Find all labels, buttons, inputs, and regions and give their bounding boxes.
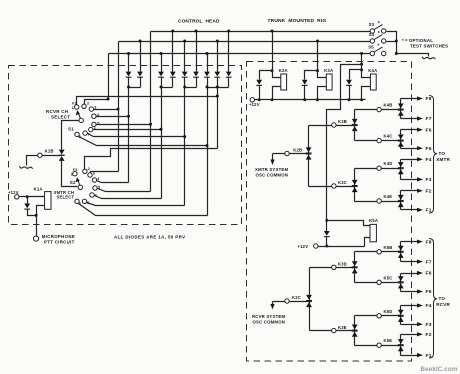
wire S1 pos3 to column v2	[94, 109, 119, 111]
svg-text:F4: F4	[426, 303, 432, 309]
switch S1 contact 5	[92, 122, 96, 126]
svg-text:XMTR: XMTR	[436, 157, 450, 162]
svg-text:F5: F5	[426, 289, 432, 295]
terminal F7	[401, 118, 418, 120]
contact K5D	[377, 314, 381, 318]
wire channel column v4 x=150.5	[150, 32, 152, 192]
terminal F6	[401, 273, 418, 275]
switch S2 contact 4	[92, 178, 96, 182]
contact K3E	[310, 330, 355, 332]
switch S1 contact 1	[75, 105, 79, 109]
terminal MICROPHONE PTT CIRCUIT	[34, 236, 39, 241]
steering diode pair at K5C	[400, 274, 402, 292]
wire bus 3 (bottom)	[109, 53, 371, 55]
svg-text:F6: F6	[426, 271, 432, 277]
wire S2 pos6 to column v5	[95, 196, 162, 199]
svg-text:+12V: +12V	[8, 190, 19, 195]
wire K1A coil to PTT line	[37, 206, 45, 237]
svg-text:*: *	[378, 31, 380, 37]
wire channel column v1 x=108	[108, 54, 110, 100]
terminal +12V (control head)	[15, 195, 19, 199]
svg-text:K5B: K5B	[384, 245, 393, 250]
wire K3D/K3E branch	[309, 268, 311, 331]
terminal F7	[401, 261, 418, 263]
wire S2 pos2 staircase to column v8	[85, 149, 218, 170]
steering diode pair at K4D	[400, 160, 402, 180]
wire S1 pos8 to column v7	[79, 137, 208, 146]
relay coil K3A	[318, 71, 327, 78]
svg-text:TRUNK MOUNTED RIG: TRUNK MOUNTED RIG	[268, 18, 327, 24]
relay coil K1A	[45, 192, 51, 210]
svg-text:F5: F5	[426, 146, 432, 152]
svg-text:F4: F4	[426, 157, 432, 163]
wire S2 pos4 to column v3	[97, 181, 129, 183]
diode CR9 (channel matrix) with feed from bus	[228, 32, 230, 72]
svg-text:SELECT: SELECT	[51, 115, 70, 120]
wire channel column v5 x=161	[161, 88, 163, 199]
svg-text:2: 2	[88, 167, 90, 171]
wire K5B/K5C branch	[355, 251, 377, 253]
steering diode pair at K5B	[400, 242, 402, 262]
svg-text:K2C: K2C	[292, 295, 301, 300]
svg-text:1: 1	[71, 173, 73, 177]
switch S2 contact 8	[75, 199, 79, 203]
contact K3D	[310, 267, 355, 269]
steering diode pair (tree)	[354, 110, 356, 141]
switch S2 wiper	[78, 185, 82, 189]
wire channel column v6 x=184.7	[184, 88, 186, 206]
svg-text:TO: TO	[439, 296, 446, 301]
wire channel column v3 x=128.5	[128, 88, 130, 183]
switch S2 contact 1	[73, 172, 77, 176]
svg-text:OSC COMMON: OSC COMMON	[253, 320, 286, 325]
wire K1B junction down to S2 wiper	[62, 161, 78, 187]
terminal F3	[401, 179, 418, 181]
svg-text:S3: S3	[369, 22, 375, 27]
svg-text:PTT CIRCUIT: PTT CIRCUIT	[44, 240, 75, 245]
switch S5 (optional test switch)	[370, 51, 374, 55]
steering diode pair at K4C	[400, 130, 402, 149]
switch S2 contact 6	[90, 193, 94, 197]
steering diode pair at K4E	[400, 191, 402, 210]
svg-text:K5A: K5A	[369, 218, 378, 223]
wire K5E to steering diodes	[382, 345, 401, 347]
diode CR11 (lower, at K1B)	[59, 156, 65, 161]
svg-text:F3: F3	[426, 177, 432, 183]
wire K4D to steering diodes	[382, 168, 401, 170]
steering diode pair (K2B node)	[306, 147, 312, 152]
svg-text:+12V: +12V	[298, 244, 309, 249]
diode CR3 (channel matrix) with feed from bus	[161, 54, 163, 72]
svg-text:TEST SWITCHES: TEST SWITCHES	[410, 43, 448, 48]
contact K4D	[377, 166, 381, 170]
contact K2C	[273, 301, 310, 303]
wire S2 pos8 to column v7	[79, 204, 208, 216]
wire +12V to K5A	[319, 246, 365, 248]
wire K4C to steering diodes	[382, 140, 401, 142]
svg-text:K2B: K2B	[293, 148, 302, 153]
svg-text:K3C: K3C	[338, 180, 347, 185]
contact K3B	[309, 125, 355, 127]
switch S1 contact 8	[75, 132, 79, 136]
steering diode pair at K5D	[400, 306, 402, 325]
svg-text:S1: S1	[68, 127, 74, 132]
svg-text:RCVR: RCVR	[436, 302, 450, 307]
svg-text:K3D: K3D	[338, 262, 347, 267]
switch S1 contact 3	[89, 107, 93, 111]
diode CR7 (channel matrix) with feed from bus	[207, 54, 209, 72]
relay coil K2A	[273, 71, 281, 78]
wire +12V bus (trunk top)	[255, 99, 366, 101]
svg-text:OSC COMMON: OSC COMMON	[256, 173, 289, 178]
terminal F8	[401, 98, 418, 100]
contact K2B	[273, 153, 309, 155]
contact K5C	[377, 280, 381, 284]
wire K5B to steering diodes	[382, 251, 401, 253]
terminal F5	[401, 148, 418, 150]
switch S1 contact 6	[89, 127, 93, 131]
terminal F8	[401, 241, 418, 243]
wire S3/S4/S5 common to ground	[387, 32, 429, 57]
svg-text:F7: F7	[426, 259, 432, 265]
svg-text:BeekIC.com: BeekIC.com	[421, 366, 458, 373]
wire K4B to steering diodes	[382, 109, 401, 111]
wire S1 wiper to K1B junction	[62, 121, 80, 150]
wire K4B/K4C branch	[355, 109, 377, 111]
svg-text:K3A: K3A	[324, 68, 333, 73]
svg-text:S4: S4	[369, 32, 375, 37]
svg-text:2: 2	[87, 102, 89, 106]
svg-text:K5D: K5D	[384, 309, 393, 314]
diode (K3A flyback)	[305, 71, 318, 80]
svg-text:K1B: K1B	[45, 148, 54, 153]
svg-text:RCVR SYSTEM: RCVR SYSTEM	[252, 314, 285, 319]
diode CR6 (channel matrix) with feed from bus	[196, 32, 198, 72]
contact K5B	[377, 250, 381, 254]
diode (K2A flyback)	[260, 71, 273, 80]
diode CR8 (channel matrix) with feed from bus	[217, 42, 219, 72]
steering diode pair (tree)	[354, 252, 356, 283]
svg-text:RCVR CH: RCVR CH	[46, 109, 68, 114]
wire +12V to relay K1A coil	[20, 196, 45, 198]
svg-text:XMTR SYSTEM: XMTR SYSTEM	[255, 167, 288, 172]
switch S2 contact 2	[83, 169, 87, 173]
terminal F4	[401, 159, 418, 161]
wire S1 pos1 to column v8	[77, 97, 218, 105]
wire bus 2 (middle)	[119, 41, 371, 43]
diode CR5 (channel matrix) with feed from bus	[184, 42, 186, 72]
svg-text:F8: F8	[426, 239, 432, 245]
wire channel column v8 x=217.3	[217, 88, 219, 149]
svg-text:K3B: K3B	[338, 119, 347, 124]
steering diode pair (K2C node)	[306, 295, 312, 300]
svg-text:F2: F2	[426, 188, 432, 194]
wire K1B to ground	[27, 156, 38, 166]
diode group join CR7-CR9	[208, 87, 229, 89]
svg-text:F8: F8	[426, 96, 432, 102]
ground (control head)	[19, 166, 32, 169]
svg-text:ALL DIODES ARE 1A, 50 PRV: ALL DIODES ARE 1A, 50 PRV	[114, 235, 185, 240]
wire K5C to steering diodes	[382, 282, 401, 284]
wire bus drop to relay K4A	[360, 52, 363, 55]
svg-text:F6: F6	[426, 127, 432, 133]
svg-text:*: *	[378, 21, 380, 27]
terminal F1	[401, 209, 418, 211]
wire S2 pos5 to column v4	[98, 189, 151, 192]
contact K5E	[377, 343, 381, 347]
svg-text:K4B: K4B	[384, 103, 393, 108]
svg-text:F7: F7	[426, 116, 432, 122]
contact K4B	[377, 107, 381, 111]
ground (test switches)	[422, 57, 435, 60]
trunk mounted rig enclosure (dashed)	[247, 62, 412, 362]
wire S1 pos5 to column v4	[97, 124, 151, 126]
wire K4A line tap down to relay K5A	[327, 65, 362, 221]
wire S1 pos2 to column v1	[85, 100, 109, 105]
diode CR2 (channel matrix) with feed from bus	[140, 42, 142, 72]
terminal F3	[401, 324, 418, 326]
wire S1 pos6 to column v5	[94, 129, 162, 131]
output XMTR SYSTEM OSC COMMON	[272, 154, 274, 161]
wire K5D to steering diodes	[382, 315, 401, 317]
svg-text:F3: F3	[426, 322, 432, 328]
svg-text:K4C: K4C	[384, 134, 393, 139]
wire S2 pos3 to column v2	[91, 172, 119, 173]
diode pair join CR3-CR4	[162, 87, 173, 89]
relay coil K5A	[327, 221, 371, 226]
relay coil K4A	[362, 70, 371, 78]
diode pair join CR5-CR6	[185, 87, 197, 89]
svg-text:S5: S5	[368, 44, 374, 49]
wire K4D/K4E branch	[355, 168, 377, 170]
terminal F6	[401, 129, 418, 131]
contact K3C	[309, 186, 355, 188]
diode CR1 (channel matrix) with feed from bus	[128, 54, 130, 72]
steering diode pair at K5E	[400, 335, 402, 356]
switch S2 contact 5	[93, 186, 97, 190]
svg-text:TO: TO	[439, 151, 446, 156]
switch S2 contact 3	[88, 173, 92, 177]
wire channel column v2 x=118	[118, 42, 120, 172]
svg-text:K1A: K1A	[34, 187, 43, 192]
wire bus drop to relay K2A	[271, 30, 274, 33]
svg-text:S2: S2	[70, 180, 76, 185]
terminal F1	[401, 355, 418, 357]
switch S2 contact 7	[82, 199, 86, 203]
wire S1 pos4 to column v3	[97, 116, 129, 118]
switch S4 (optional test switch)	[370, 39, 374, 43]
steering diode pair (tree)	[354, 316, 356, 346]
svg-text:1: 1	[72, 106, 74, 110]
svg-text:K4E: K4E	[384, 194, 393, 199]
switch S3 (optional test switch)	[370, 29, 374, 33]
output RCVR SYSTEM OSC COMMON	[272, 302, 274, 305]
svg-text:K4D: K4D	[384, 161, 393, 166]
contact K4E	[377, 199, 381, 203]
svg-text:SELECT: SELECT	[57, 195, 75, 200]
svg-text:K5C: K5C	[384, 275, 393, 280]
svg-text:MICROPHONE: MICROPHONE	[42, 234, 75, 239]
wire bus drop to relay K3A	[316, 40, 319, 43]
control head enclosure (dashed)	[9, 66, 242, 225]
svg-text:K4A: K4A	[368, 68, 377, 73]
steering diode pair (tree)	[354, 169, 356, 202]
diode CR4 (channel matrix) with feed from bus	[172, 32, 174, 72]
diode CR12 (K1A flyback)	[27, 197, 29, 204]
diode pair join CR1-CR2	[129, 87, 141, 89]
terminal F4	[401, 305, 418, 307]
wire bus 1 (top)	[151, 31, 371, 33]
wire S2 pos7 to column v6	[87, 203, 185, 206]
svg-text:K5E: K5E	[384, 338, 393, 343]
diode CR10 (upper, at K1B)	[59, 150, 65, 155]
contact K4C	[377, 138, 381, 142]
steering diode pair at K4B	[400, 99, 402, 119]
contact K1B	[38, 153, 42, 157]
wire K5D/K5E branch	[355, 315, 377, 317]
switch S1 contact 2	[82, 104, 86, 108]
brace TO RCVR	[429, 239, 437, 359]
terminal +12V (trunk top)	[250, 98, 254, 102]
wire channel column v7 x=207	[207, 88, 209, 216]
terminal F2	[401, 190, 418, 192]
terminal F5	[401, 291, 418, 293]
terminal F2	[401, 334, 418, 336]
wire K3B/K3C branch	[308, 126, 310, 187]
svg-text:K3E: K3E	[338, 325, 347, 330]
wire S1 pos7 to column v6	[88, 134, 185, 137]
switch S1 wiper	[79, 118, 83, 122]
brace TO XMTR	[429, 96, 437, 214]
svg-text:CONTROL HEAD: CONTROL HEAD	[178, 18, 220, 24]
svg-text:*: *	[377, 44, 379, 50]
diode (K4A flyback)	[350, 70, 362, 80]
switch S1 contact 4	[92, 114, 96, 118]
svg-text:+12V: +12V	[249, 102, 260, 107]
wire K4E to steering diodes	[382, 201, 401, 203]
diode (K5A flyback)	[326, 221, 328, 232]
switch S1 contact 7	[83, 131, 87, 135]
terminal +12V (trunk lower)	[314, 244, 318, 248]
svg-text:F2: F2	[426, 332, 432, 338]
svg-text:K2A: K2A	[279, 68, 288, 73]
